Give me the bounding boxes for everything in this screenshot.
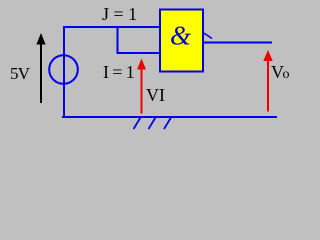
svg-text:o: o: [283, 67, 290, 82]
svg-text:J = 1: J = 1: [102, 4, 137, 24]
wire top rail from source top to AND gate input J: [64, 27, 160, 117]
svg-text:VI: VI: [146, 85, 165, 105]
svg-text:I = 1: I = 1: [103, 62, 134, 82]
wire bottom rail (ground rail): [62, 116, 277, 118]
ground (hatched): [134, 118, 172, 130]
switch blade on gate output: [203, 33, 212, 39]
arrow (red) Vo measurement: [263, 50, 272, 112]
svg-text:5V: 5V: [10, 64, 31, 83]
arrow (black) 5V polarity: [36, 33, 45, 103]
AND gate U1 (IEC symbol): [160, 10, 203, 72]
wire gate output to Vo: [202, 42, 272, 44]
wire branch to input I: [118, 26, 161, 53]
voltage source V1 (circle): [49, 55, 78, 84]
svg-text:&: &: [170, 21, 191, 51]
arrow (red) VI measurement: [137, 59, 146, 114]
